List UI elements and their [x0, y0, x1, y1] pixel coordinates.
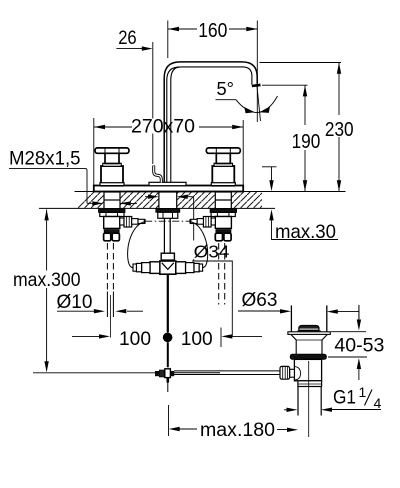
svg-text:1: 1	[359, 384, 367, 400]
spout plinth	[149, 182, 186, 185]
pop-up rod below tee	[167, 274, 169, 332]
svg-text:100: 100	[181, 328, 213, 350]
pop-up pull rod (J-hook by spout)	[154, 166, 162, 183]
diameter 34 label	[193, 241, 232, 260]
drain cup (Ø63 flange)	[290, 305, 292, 331]
right valve side nipple	[211, 218, 215, 225]
dimension 40-53	[328, 305, 367, 380]
svg-text:max.300: max.300	[13, 270, 81, 291]
dimension 230	[260, 63, 342, 192]
Ø10 supply pipe left (hidden)	[107, 243, 113, 338]
drain side stem	[290, 369, 295, 377]
spout tube	[164, 62, 260, 183]
horizontal lever reference line	[33, 372, 155, 374]
tee right nipple	[176, 262, 186, 274]
dimension 100 / 100	[72, 328, 262, 348]
left shank through counter	[104, 192, 120, 209]
drain body	[294, 359, 321, 380]
svg-text:100: 100	[119, 328, 151, 350]
diameter 34 arrows at centre hole	[145, 195, 232, 337]
drain skirt	[291, 334, 328, 354]
drain plug dome	[299, 326, 319, 331]
svg-text:4: 4	[374, 395, 382, 411]
right valve below deck	[190, 209, 236, 241]
svg-text:max.30: max.30	[275, 221, 336, 243]
spout outlet face	[252, 85, 261, 86]
M28x1,5 label	[9, 168, 137, 205]
right handle	[206, 148, 240, 186]
rod clamp at lever crossing	[155, 369, 174, 378]
drain tail hub	[298, 381, 322, 387]
G1 1/4 label	[284, 408, 381, 413]
junction dot (100/100)	[163, 333, 173, 343]
Ø10 supply pipe right (hidden)	[219, 243, 225, 305]
center shank through counter	[159, 192, 177, 209]
svg-text:190: 190	[292, 131, 321, 153]
flexible hose right	[191, 222, 208, 268]
svg-text:270x70: 270x70	[131, 117, 195, 138]
svg-text:max.180: max.180	[200, 420, 275, 441]
svg-text:Ø63: Ø63	[242, 290, 278, 311]
drain gasket	[290, 354, 326, 359]
flexible hose left	[128, 222, 145, 268]
drain tailpipe	[297, 387, 299, 416]
dimension 270x70	[94, 118, 243, 185]
max.180 dimension	[169, 405, 299, 436]
left handle	[95, 148, 129, 186]
tee coupling nut	[133, 253, 203, 274]
pop-up waste drain assembly	[280, 305, 330, 437]
max.300 dimension	[44, 209, 48, 372]
svg-text:40-53: 40-53	[334, 335, 384, 356]
deck plate (escutcheon 270x70)	[94, 186, 243, 192]
drain axis centreline	[308, 361, 310, 437]
centre supply pipe	[164, 218, 170, 253]
Ø63 label	[238, 305, 359, 319]
tee left nipple	[150, 262, 160, 274]
svg-text:5°: 5°	[217, 78, 235, 99]
rod end below clamp	[167, 378, 170, 383]
5 degree angle callout	[216, 87, 278, 122]
svg-text:26: 26	[118, 28, 137, 49]
svg-text:G1: G1	[333, 388, 356, 409]
countertop top surface line	[75, 191, 346, 193]
Ø10 label	[57, 309, 143, 313]
dimension 190	[262, 85, 308, 191]
dimension 160	[168, 21, 257, 123]
valve axis centreline	[145, 220, 190, 222]
countertop hatch	[55, 190, 267, 210]
drain seat lip	[288, 332, 330, 335]
centre stack below deck	[156, 209, 180, 219]
lever rod double line	[174, 370, 281, 372]
svg-text:230: 230	[325, 119, 354, 141]
drain boss arc	[295, 367, 301, 380]
left valve side nipple	[120, 218, 124, 225]
drain side knob	[280, 366, 290, 379]
svg-text:160: 160	[198, 20, 227, 42]
max.30 dimension	[262, 167, 338, 240]
right shank through counter	[215, 192, 231, 209]
countertop underside line	[39, 207, 275, 209]
svg-text:M28x1,5: M28x1,5	[9, 149, 81, 170]
dimension 26	[116, 42, 152, 164]
left valve below deck	[99, 209, 145, 241]
svg-text:Ø10: Ø10	[57, 292, 93, 313]
